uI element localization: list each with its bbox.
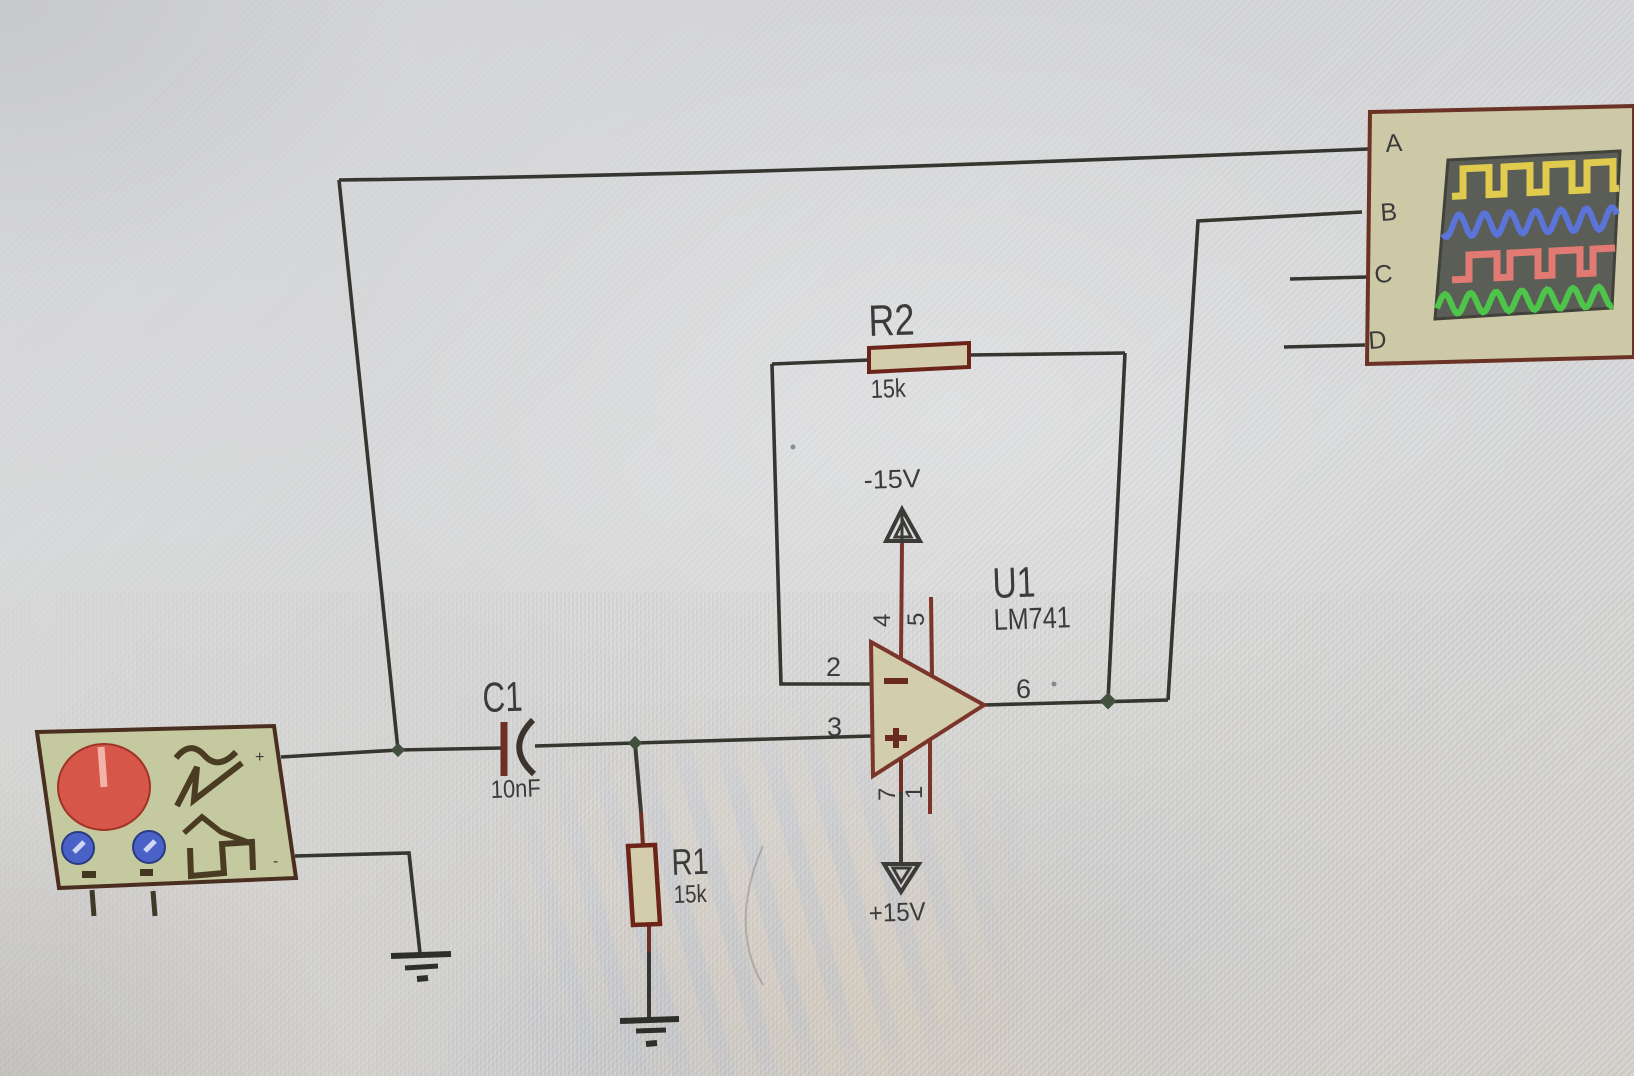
svg-text:C1: C1	[482, 673, 524, 721]
signal generator waveform icon sine	[176, 748, 236, 762]
op-amp U1	[871, 642, 984, 776]
svg-text:B: B	[1379, 198, 1398, 227]
power -15V arrow	[886, 509, 920, 541]
oscilloscope channel C waveform	[1452, 248, 1615, 280]
resistor R1	[628, 845, 660, 925]
signal generator waveform icon square	[184, 817, 250, 843]
wire node B to pin 3	[635, 736, 872, 743]
wire feedback left vertical	[339, 180, 398, 750]
wire feedback to R2 left	[772, 360, 869, 364]
wire R2 down to output node	[1108, 353, 1125, 701]
svg-text:7: 7	[874, 788, 901, 801]
capacitor C1 plate right curved	[519, 720, 534, 774]
svg-text:C: C	[1373, 260, 1393, 289]
svg-text:D: D	[1367, 326, 1387, 355]
svg-text:LM741: LM741	[993, 601, 1071, 637]
svg-text:R2: R2	[868, 295, 916, 346]
svg-text:A: A	[1384, 129, 1403, 158]
svg-text:2: 2	[826, 652, 841, 682]
op-amp U1 pin 7 stub	[899, 758, 903, 792]
signal generator knob 3	[133, 831, 165, 863]
wire node A to C1	[398, 748, 502, 750]
svg-text:+15V: +15V	[868, 896, 927, 928]
wire pin 2 to feedback loop	[772, 364, 872, 684]
signal generator amplitude knob	[58, 744, 150, 830]
svg-text:1: 1	[901, 786, 928, 799]
signal generator bottom pin 1	[92, 890, 94, 916]
power +15V arrow	[884, 864, 919, 892]
svg-text:5: 5	[903, 613, 930, 626]
op-amp U1 pin 1 stub	[928, 740, 932, 814]
wire R2 right	[969, 353, 1125, 355]
wire scope C stub	[1290, 277, 1367, 279]
svg-text:-15V: -15V	[863, 463, 922, 495]
oscilloscope body	[1367, 106, 1634, 364]
resistor R2	[869, 343, 969, 372]
capacitor C1 plate left	[501, 722, 508, 776]
signal generator knob 2	[62, 832, 94, 864]
svg-text:R1: R1	[671, 841, 709, 883]
signal generator body	[37, 726, 296, 888]
svg-text:15k: 15k	[870, 373, 907, 404]
wire scope D stub	[1284, 345, 1365, 347]
oscilloscope screen	[1435, 151, 1620, 319]
wire output up to scope B	[1168, 212, 1362, 700]
ground symbol right	[620, 1019, 679, 1044]
wire source minus to ground	[295, 853, 420, 953]
dust speck 2	[1052, 682, 1057, 687]
wire R1 to ground	[647, 924, 651, 952]
ground symbol left	[391, 954, 451, 979]
svg-text:3: 3	[827, 712, 842, 742]
svg-text:15k: 15k	[673, 880, 707, 909]
oscilloscope channel B waveform	[1443, 208, 1617, 237]
screen smudge artifact	[746, 846, 763, 985]
wire node B down to R1	[635, 743, 641, 812]
signal generator bottom pin 2	[153, 891, 155, 916]
oscilloscope channel A waveform	[1452, 162, 1619, 197]
svg-text:4: 4	[869, 614, 896, 627]
wire A feedback top	[339, 149, 1368, 180]
wire pin 6 output	[984, 700, 1168, 705]
wire C1 to node B	[535, 743, 635, 746]
svg-text:-: -	[273, 853, 278, 870]
svg-text:6: 6	[1016, 674, 1031, 704]
oscilloscope channel D waveform	[1437, 287, 1613, 314]
wire source plus to node A	[281, 750, 398, 757]
op-amp U1 pin 4 stub	[901, 541, 902, 660]
node A junction dot	[391, 743, 405, 757]
node OUT junction dot	[1100, 693, 1117, 710]
op-amp U1 pin 5 stub	[931, 597, 932, 676]
signal generator knob label 2	[140, 869, 153, 876]
svg-text:U1: U1	[992, 559, 1037, 608]
svg-text:10nF: 10nF	[490, 774, 541, 804]
dust speck 1	[791, 445, 796, 450]
signal generator waveform icon triangle	[177, 763, 242, 806]
svg-text:+: +	[255, 749, 264, 766]
node B junction dot	[628, 736, 642, 750]
signal generator knob label 1	[82, 871, 96, 878]
